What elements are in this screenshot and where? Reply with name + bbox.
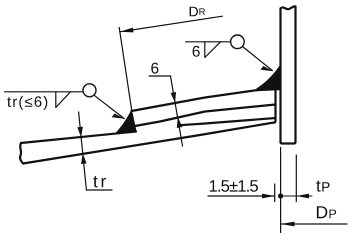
weld symbol upper all-around circle bbox=[231, 35, 245, 49]
member R lower wedge top edge L3 bbox=[21, 118, 276, 143]
arrowhead 1.5 (points right) bbox=[262, 194, 275, 199]
arrowhead tP (points left) bbox=[297, 194, 310, 199]
member R bottom edge L4 bbox=[23, 123, 272, 164]
member R upper bar top edge L1 bbox=[132, 88, 276, 112]
plate P vertical left face bbox=[279, 9, 281, 143]
label DR - D bbox=[190, 7, 198, 17]
arrowhead tr up (on L4) bbox=[81, 154, 87, 165]
plate P bottom edge bbox=[281, 142, 296, 144]
member R right end edge bbox=[272, 88, 276, 123]
weld fillet left (black triangle) bbox=[116, 111, 137, 134]
arrowhead upper leader (down-right) bbox=[261, 66, 274, 71]
label tr member thickness bbox=[93, 176, 106, 187]
dimension tr slanted dimension line bbox=[79, 112, 87, 190]
arrowhead DP (points left) bbox=[281, 222, 295, 227]
extension line plate left face bbox=[280, 148, 282, 233]
weld fillet right at plate face (black triangle) bbox=[254, 66, 281, 91]
arrowhead tr down (on L3) bbox=[77, 127, 83, 138]
arrowhead 6 up (on L2) bbox=[177, 117, 183, 128]
dimension tr underline bbox=[86, 189, 112, 191]
weld symbol left all-around circle bbox=[83, 84, 96, 97]
dimension DR line bbox=[120, 16, 222, 32]
label DR - R subscript bbox=[199, 8, 205, 15]
weld symbol upper fillet triangle bbox=[205, 42, 221, 58]
plate P vertical right face bbox=[294, 7, 296, 143]
weld symbol upper leader line bbox=[243, 47, 273, 71]
label 6 bar thickness bbox=[151, 63, 158, 74]
label DP - D bbox=[317, 206, 327, 218]
extension line member end bbox=[274, 184, 276, 202]
dimension DR extension line to weld toe bbox=[119, 28, 131, 110]
dimension 1.5 line bbox=[208, 195, 274, 197]
arrowhead 6 down (on L1) bbox=[171, 92, 177, 103]
dimension tP line bbox=[281, 195, 312, 197]
label 6 upper weld size bbox=[193, 46, 200, 57]
weld symbol left leader line bbox=[94, 95, 124, 118]
label 1.5 +/- 1.5 gap bbox=[210, 180, 258, 192]
weld symbol left reference line bbox=[5, 91, 84, 93]
arrowhead left leader (down-right) bbox=[112, 114, 125, 119]
arrowhead DR (left, along slope) bbox=[120, 28, 134, 33]
label DP - P subscript bbox=[330, 210, 337, 219]
dimension 6 leader underline bbox=[149, 75, 171, 77]
dimension DP line bbox=[281, 223, 347, 225]
dimension 6 slanted dimension line bbox=[171, 76, 183, 146]
extension line plate right face bbox=[295, 155, 297, 202]
label tr(<=6) weld size bbox=[7, 96, 47, 110]
member R left break edge bbox=[20, 143, 23, 164]
label tP - t bbox=[316, 181, 320, 192]
label tP - P subscript bbox=[322, 182, 329, 191]
weld symbol upper reference line bbox=[186, 41, 231, 43]
plate P wavy top break edge bbox=[281, 6, 296, 9]
junction dot at plate face bbox=[278, 193, 283, 198]
member R upper bar bottom edge L2 bbox=[135, 105, 276, 127]
weld symbol left fillet triangle bbox=[56, 92, 71, 108]
